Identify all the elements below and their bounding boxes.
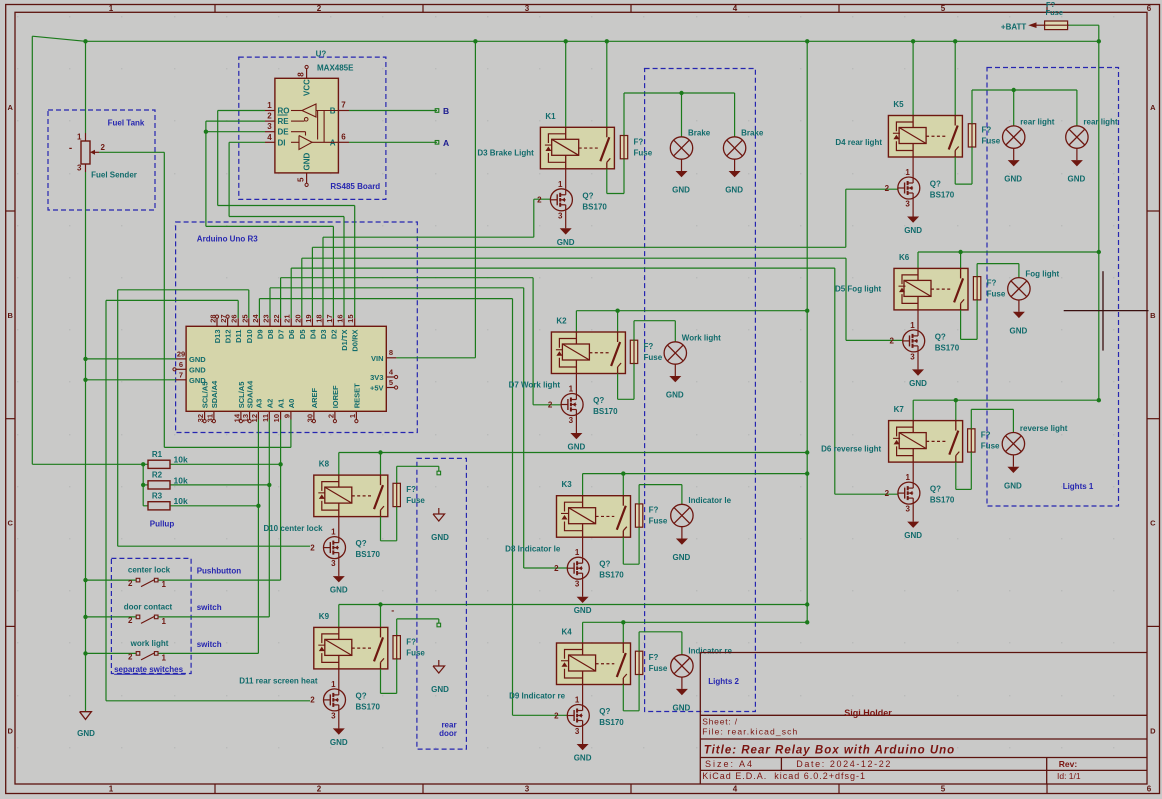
- svg-text:A2: A2: [265, 399, 274, 409]
- svg-text:center lock: center lock: [128, 565, 171, 574]
- svg-text:F?: F?: [406, 485, 416, 494]
- svg-text:Brake: Brake: [688, 129, 711, 138]
- svg-text:SDA/A4: SDA/A4: [246, 380, 255, 408]
- svg-text:1: 1: [575, 548, 580, 557]
- svg-text:GND: GND: [431, 533, 449, 542]
- svg-text:Q?: Q?: [935, 332, 946, 341]
- svg-text:26: 26: [230, 314, 239, 322]
- svg-text:K9: K9: [319, 612, 330, 621]
- svg-text:BS170: BS170: [593, 407, 618, 416]
- svg-text:Fuse: Fuse: [644, 353, 663, 362]
- svg-text:IOREF: IOREF: [331, 385, 340, 408]
- svg-text:1: 1: [905, 473, 910, 482]
- svg-text:Sheet: /: Sheet: /: [702, 717, 738, 727]
- svg-text:+5V: +5V: [370, 384, 384, 393]
- svg-text:door: door: [439, 729, 457, 738]
- svg-text:Sigi Holder: Sigi Holder: [844, 708, 892, 718]
- svg-text:D5: D5: [298, 330, 307, 340]
- svg-text:GND: GND: [189, 355, 206, 364]
- svg-text:4: 4: [733, 785, 738, 794]
- svg-text:17: 17: [325, 314, 334, 322]
- svg-text:Lights 2: Lights 2: [708, 677, 739, 686]
- svg-text:2: 2: [317, 785, 322, 794]
- svg-text:D: D: [7, 727, 13, 736]
- svg-text:16: 16: [336, 314, 345, 322]
- svg-text:1: 1: [348, 414, 357, 418]
- svg-text:GND: GND: [77, 729, 95, 738]
- svg-text:BS170: BS170: [582, 202, 607, 211]
- svg-text:7: 7: [341, 101, 346, 110]
- svg-text:D4: D4: [308, 329, 317, 339]
- svg-text:rear light: rear light: [1083, 118, 1118, 127]
- svg-text:K5: K5: [893, 100, 904, 109]
- svg-text:Title: Rear Relay Box with Ard: Title: Rear Relay Box with Arduino Uno: [704, 744, 955, 756]
- svg-text:Q?: Q?: [582, 191, 593, 200]
- svg-text:GND: GND: [557, 238, 575, 247]
- svg-text:Fuse: Fuse: [987, 289, 1006, 298]
- svg-text:BS170: BS170: [930, 191, 955, 200]
- svg-text:GND: GND: [1004, 481, 1022, 490]
- svg-text:3: 3: [905, 200, 910, 209]
- svg-text:7: 7: [179, 370, 183, 379]
- svg-text:D: D: [1150, 727, 1156, 736]
- svg-text:D5 Fog light: D5 Fog light: [835, 285, 882, 294]
- svg-text:1: 1: [109, 4, 114, 13]
- svg-text:3V3: 3V3: [370, 373, 383, 382]
- svg-text:2: 2: [537, 196, 542, 205]
- svg-text:2: 2: [128, 616, 133, 625]
- svg-text:10: 10: [272, 414, 281, 422]
- svg-text:22: 22: [272, 314, 281, 322]
- svg-text:29: 29: [177, 349, 185, 358]
- svg-text:D13: D13: [213, 330, 222, 344]
- svg-text:14: 14: [232, 413, 241, 422]
- svg-text:Q?: Q?: [593, 396, 604, 405]
- svg-text:BS170: BS170: [599, 571, 624, 580]
- svg-text:B: B: [1150, 311, 1156, 320]
- svg-text:D1/TX: D1/TX: [340, 330, 349, 351]
- svg-text:Work light: Work light: [682, 334, 721, 343]
- svg-text:Id: 1/1: Id: 1/1: [1057, 771, 1081, 781]
- svg-text:K3: K3: [562, 480, 573, 489]
- svg-text:1: 1: [905, 168, 910, 177]
- svg-text:D0/RX: D0/RX: [351, 330, 360, 352]
- svg-text:2: 2: [554, 711, 559, 720]
- svg-text:GND: GND: [904, 226, 922, 235]
- svg-text:3: 3: [331, 711, 336, 720]
- svg-text:F?: F?: [987, 278, 997, 287]
- svg-text:R3: R3: [152, 491, 163, 500]
- svg-text:10k: 10k: [174, 455, 188, 465]
- svg-text:2: 2: [885, 184, 890, 193]
- svg-text:K7: K7: [894, 405, 905, 414]
- svg-text:3: 3: [910, 352, 915, 361]
- svg-text:A: A: [443, 138, 449, 148]
- svg-text:D7 Work light: D7 Work light: [509, 381, 561, 390]
- svg-text:BS170: BS170: [930, 496, 955, 505]
- svg-text:2: 2: [267, 112, 272, 121]
- svg-text:4: 4: [733, 4, 738, 13]
- svg-text:24: 24: [251, 314, 260, 323]
- svg-text:Fuse: Fuse: [982, 137, 1001, 146]
- svg-text:D3: D3: [319, 330, 328, 340]
- svg-text:U?: U?: [316, 50, 327, 59]
- svg-text:File: rear.kicad_sch: File: rear.kicad_sch: [702, 727, 798, 737]
- svg-text:Brake: Brake: [741, 129, 764, 138]
- svg-text:work light: work light: [130, 639, 169, 648]
- svg-text:reverse light: reverse light: [1020, 424, 1068, 433]
- svg-text:SDA/A4: SDA/A4: [210, 380, 219, 408]
- svg-text:GND: GND: [574, 754, 592, 763]
- svg-text:1: 1: [569, 385, 574, 394]
- svg-text:RE: RE: [278, 117, 290, 126]
- svg-text:Q?: Q?: [356, 691, 367, 700]
- svg-text:D6 reverse light: D6 reverse light: [821, 445, 881, 454]
- svg-text:30: 30: [305, 414, 314, 422]
- svg-text:GND: GND: [189, 365, 206, 374]
- svg-text:B: B: [443, 106, 449, 116]
- svg-text:GND: GND: [909, 379, 927, 388]
- svg-text:4: 4: [267, 133, 272, 142]
- svg-text:3: 3: [575, 727, 580, 736]
- svg-text:GND: GND: [303, 153, 312, 171]
- svg-text:1: 1: [910, 321, 915, 330]
- svg-text:5: 5: [389, 378, 393, 387]
- svg-text:GND: GND: [431, 685, 449, 694]
- svg-text:D11: D11: [234, 330, 243, 343]
- svg-text:Fuel Sender: Fuel Sender: [91, 171, 137, 180]
- svg-text:D8 Indicator le: D8 Indicator le: [505, 544, 561, 553]
- svg-text:GND: GND: [673, 553, 691, 562]
- svg-text:BS170: BS170: [935, 343, 960, 352]
- svg-text:3: 3: [905, 505, 910, 514]
- svg-text:1: 1: [162, 580, 167, 589]
- svg-text:switch: switch: [197, 603, 222, 612]
- svg-text:5: 5: [941, 785, 946, 794]
- svg-text:6: 6: [341, 132, 346, 141]
- svg-text:18: 18: [315, 314, 324, 322]
- svg-text:GND: GND: [1010, 326, 1028, 335]
- svg-text:Fog light: Fog light: [1025, 269, 1059, 278]
- svg-text:6: 6: [1147, 4, 1152, 13]
- svg-text:3: 3: [569, 416, 574, 425]
- svg-text:Q?: Q?: [930, 485, 941, 494]
- svg-text:K6: K6: [899, 253, 910, 262]
- svg-text:Date: 2024-12-22: Date: 2024-12-22: [796, 759, 892, 769]
- svg-text:2: 2: [554, 564, 559, 573]
- svg-text:Fuse: Fuse: [981, 442, 1000, 451]
- svg-text:BS170: BS170: [356, 550, 381, 559]
- svg-text:Pullup: Pullup: [150, 520, 175, 529]
- svg-text:GND: GND: [568, 443, 586, 452]
- svg-text:C: C: [7, 518, 13, 527]
- svg-text:5: 5: [941, 4, 946, 13]
- svg-text:Arduino Uno R3: Arduino Uno R3: [197, 235, 258, 244]
- svg-text:DI: DI: [278, 138, 286, 147]
- svg-text:D7: D7: [277, 330, 286, 340]
- svg-text:2: 2: [101, 143, 106, 152]
- svg-text:2: 2: [310, 543, 315, 552]
- svg-text:9: 9: [282, 414, 291, 418]
- svg-text:3: 3: [267, 122, 272, 131]
- svg-text:12: 12: [250, 414, 259, 422]
- svg-text:F?: F?: [644, 342, 654, 351]
- svg-text:DE: DE: [278, 128, 290, 137]
- svg-text:1: 1: [77, 132, 82, 141]
- svg-text:1: 1: [267, 101, 272, 110]
- svg-text:Fuse: Fuse: [406, 648, 425, 657]
- svg-text:Q?: Q?: [599, 707, 610, 716]
- svg-text:GND: GND: [672, 186, 690, 195]
- svg-text:13: 13: [241, 414, 250, 422]
- svg-text:GND: GND: [574, 606, 592, 615]
- svg-text:separate switches: separate switches: [114, 665, 183, 674]
- svg-text:A: A: [7, 103, 13, 112]
- svg-text:SCL/A5: SCL/A5: [201, 382, 210, 409]
- svg-text:Q?: Q?: [356, 539, 367, 548]
- svg-text:D9: D9: [255, 330, 264, 340]
- svg-text:3: 3: [525, 4, 530, 13]
- svg-text:10k: 10k: [174, 475, 188, 485]
- svg-text:2: 2: [885, 489, 890, 498]
- svg-text:3: 3: [77, 164, 82, 173]
- svg-text:20: 20: [293, 314, 302, 322]
- svg-text:MAX485E: MAX485E: [317, 64, 354, 73]
- svg-text:KiCad E.D.A. kicad 6.0.2+dfsg: KiCad E.D.A. kicad 6.0.2+dfsg-1: [702, 771, 866, 781]
- svg-text:D11 rear screen heat: D11 rear screen heat: [239, 676, 318, 685]
- svg-text:A: A: [1150, 103, 1156, 112]
- svg-text:A3: A3: [254, 399, 263, 409]
- svg-text:Q?: Q?: [599, 560, 610, 569]
- svg-text:Fuse: Fuse: [649, 517, 668, 526]
- svg-text:3: 3: [575, 580, 580, 589]
- svg-text:1: 1: [162, 653, 167, 662]
- svg-text:AREF: AREF: [310, 387, 319, 408]
- svg-text:25: 25: [240, 314, 249, 322]
- svg-text:GND: GND: [904, 531, 922, 540]
- svg-text:1: 1: [331, 528, 336, 537]
- svg-text:R1: R1: [152, 450, 163, 459]
- svg-text:F?: F?: [649, 506, 659, 515]
- svg-text:Size: A4: Size: A4: [705, 759, 754, 769]
- svg-text:VCC: VCC: [303, 79, 312, 96]
- svg-text:RESET: RESET: [352, 383, 361, 408]
- svg-text:8: 8: [297, 72, 306, 77]
- svg-text:GND: GND: [666, 391, 684, 400]
- svg-text:VIN: VIN: [371, 354, 384, 363]
- svg-text:rear: rear: [441, 720, 456, 729]
- svg-text:F?: F?: [406, 637, 416, 646]
- svg-text:19: 19: [304, 314, 313, 322]
- svg-text:F?: F?: [982, 126, 992, 135]
- svg-text:3: 3: [331, 559, 336, 568]
- svg-text:2: 2: [317, 4, 322, 13]
- svg-text:F?: F?: [649, 653, 659, 662]
- svg-text:Pushbutton: Pushbutton: [197, 566, 242, 575]
- svg-text:Q?: Q?: [930, 180, 941, 189]
- svg-text:K8: K8: [319, 460, 330, 469]
- svg-text:D3 Brake Light: D3 Brake Light: [477, 148, 534, 157]
- svg-text:3: 3: [558, 211, 563, 220]
- svg-text:2: 2: [128, 652, 133, 661]
- svg-text:F?: F?: [981, 431, 991, 440]
- svg-text:Fuse: Fuse: [1046, 8, 1064, 17]
- svg-text:SCL/A5: SCL/A5: [237, 382, 246, 409]
- svg-text:D10 center lock: D10 center lock: [263, 524, 323, 533]
- svg-text:GND: GND: [673, 704, 691, 713]
- svg-text:Fuse: Fuse: [634, 148, 653, 157]
- svg-text:Fuel Tank: Fuel Tank: [108, 119, 145, 128]
- svg-text:GND: GND: [725, 186, 743, 195]
- svg-text:D12: D12: [224, 330, 233, 344]
- svg-text:D10: D10: [245, 330, 254, 344]
- svg-text:5: 5: [297, 177, 306, 182]
- svg-text:A1: A1: [277, 399, 286, 409]
- svg-text:Indicator re: Indicator re: [688, 646, 732, 655]
- svg-text:2: 2: [326, 414, 335, 418]
- svg-text:10k: 10k: [174, 496, 188, 506]
- svg-text:3: 3: [525, 785, 530, 794]
- svg-text:K4: K4: [562, 628, 573, 637]
- svg-text:switch: switch: [197, 640, 222, 649]
- svg-text:BS170: BS170: [599, 718, 624, 727]
- svg-text:Indicator le: Indicator le: [688, 496, 731, 505]
- svg-text:GND: GND: [330, 738, 348, 747]
- svg-text:K1: K1: [545, 112, 556, 121]
- svg-text:D9 Indicator re: D9 Indicator re: [509, 692, 566, 701]
- svg-text:R2: R2: [152, 471, 163, 480]
- svg-text:A0: A0: [287, 399, 296, 409]
- svg-text:GND: GND: [1004, 175, 1022, 184]
- svg-text:RS485 Board: RS485 Board: [330, 182, 380, 191]
- svg-text:B: B: [7, 311, 13, 320]
- svg-text:6: 6: [179, 360, 183, 369]
- svg-text:-: -: [69, 143, 72, 154]
- svg-text:D2: D2: [329, 330, 338, 340]
- svg-text:1: 1: [162, 617, 167, 626]
- svg-text:D6: D6: [287, 330, 296, 340]
- svg-text:6: 6: [1147, 785, 1152, 794]
- svg-text:GND: GND: [1068, 175, 1086, 184]
- svg-text:D4 rear light: D4 rear light: [835, 138, 882, 147]
- svg-text:31: 31: [205, 414, 214, 422]
- svg-text:1: 1: [109, 785, 114, 794]
- svg-text:32: 32: [196, 414, 205, 422]
- svg-text:Fuse: Fuse: [406, 496, 425, 505]
- svg-text:D8: D8: [266, 330, 275, 340]
- svg-text:2: 2: [548, 400, 553, 409]
- svg-text:Rev:: Rev:: [1059, 759, 1078, 769]
- svg-text:K2: K2: [556, 317, 567, 326]
- svg-text:F?: F?: [634, 137, 644, 146]
- svg-text:2: 2: [889, 337, 894, 346]
- svg-text:C: C: [1150, 518, 1156, 527]
- svg-text:Fuse: Fuse: [649, 664, 668, 673]
- svg-text:2: 2: [310, 696, 315, 705]
- svg-text:23: 23: [262, 314, 271, 322]
- svg-text:8: 8: [389, 348, 393, 357]
- svg-text:-: -: [391, 606, 394, 616]
- svg-text:1: 1: [558, 180, 563, 189]
- svg-text:BS170: BS170: [356, 702, 381, 711]
- svg-text:1: 1: [575, 696, 580, 705]
- svg-text:1: 1: [331, 680, 336, 689]
- svg-text:RO: RO: [278, 107, 290, 116]
- svg-text:2: 2: [128, 579, 133, 588]
- svg-text:21: 21: [283, 314, 292, 322]
- svg-text:GND: GND: [330, 586, 348, 595]
- svg-text:11: 11: [261, 414, 270, 422]
- svg-text:rear light: rear light: [1020, 118, 1055, 127]
- svg-text:+BATT: +BATT: [1001, 22, 1027, 31]
- svg-text:Lights 1: Lights 1: [1063, 482, 1094, 491]
- svg-text:door contact: door contact: [124, 602, 173, 611]
- svg-text:15: 15: [346, 314, 355, 322]
